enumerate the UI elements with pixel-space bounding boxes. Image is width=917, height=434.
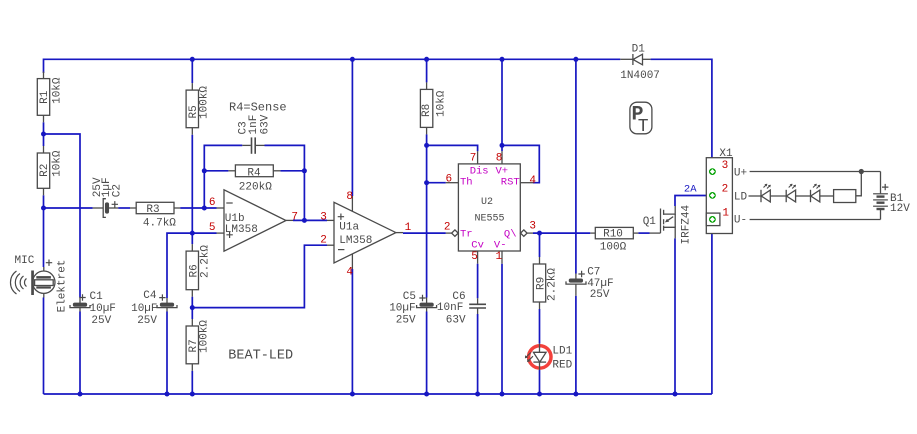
svg-text:1: 1 [405, 222, 412, 234]
junction top rail / U1a pin 8 [350, 57, 355, 62]
label C4 value [131, 290, 157, 327]
svg-text:LD1: LD1 [552, 345, 572, 357]
LED LD1 [525, 344, 546, 370]
wire C6 to ground [477, 314, 479, 394]
svg-text:RST: RST [501, 177, 520, 189]
wire R3 to U1b pin 6 [180, 207, 216, 209]
svg-text:63V: 63V [260, 114, 272, 134]
svg-text:U-: U- [734, 214, 747, 226]
resistor R4 [228, 165, 280, 177]
IC U2 NE555 box [446, 151, 533, 264]
svg-text:5: 5 [209, 222, 216, 234]
svg-text:25V: 25V [91, 315, 111, 327]
svg-text:25V: 25V [590, 289, 610, 301]
junction feedback right / R4 [302, 168, 307, 173]
wire R2 to MIC [43, 195, 45, 267]
label C2 value (rotated) [92, 177, 124, 197]
svg-text:NE555: NE555 [475, 213, 505, 224]
svg-text:R2: R2 [39, 164, 51, 177]
transistor Q1 IRFZ44 MOSFET [650, 206, 676, 238]
svg-text:R3: R3 [146, 204, 159, 216]
junction Dis node [424, 143, 429, 148]
junction top rail / R5 [190, 57, 195, 62]
label R5 value [188, 86, 211, 119]
external LED chain frame: U+ wire [750, 169, 881, 196]
junction ground/U1a pin4 [350, 392, 355, 397]
junction R2/MIC/C2 [41, 206, 46, 211]
label U1a [339, 222, 372, 247]
junction ground/NE555 V- [500, 392, 505, 397]
label R6 value [188, 245, 211, 278]
NE555 Tr pin 2 inverting bubble [452, 230, 459, 236]
wire left rail R1 to R2 [43, 122, 45, 146]
junction ground/R7 [190, 392, 195, 397]
svg-text:U+: U+ [734, 167, 747, 179]
resistor R1 [37, 72, 49, 123]
wire Q1 drain to X1 pin 2 [675, 196, 709, 207]
svg-text:2: 2 [444, 221, 451, 233]
LED LD1 red highlight ring [529, 346, 551, 368]
wire U1a pin 8 to top rail [351, 59, 353, 196]
svg-text:Tr: Tr [460, 228, 473, 240]
svg-text:C2: C2 [112, 184, 124, 197]
connector X1 pin 1 green pad [709, 216, 716, 223]
svg-text:T: T [638, 117, 649, 137]
resistor R3 [130, 202, 180, 213]
wire LED1-LED2 [770, 195, 786, 197]
label C1 value [90, 291, 116, 327]
svg-text:U1a: U1a [339, 222, 359, 234]
wire top rail right of D1 down to X1 pin 3 [651, 59, 712, 168]
label C3 value (rotated) [238, 114, 272, 134]
svg-text:V+: V+ [496, 165, 509, 177]
svg-text:1: 1 [722, 208, 729, 220]
wire C5 to ground [426, 312, 428, 395]
wire C7 to ground [575, 296, 577, 394]
junction ground/C1 [78, 392, 83, 397]
wire C4 to ground [166, 312, 168, 395]
connector X1 pin 2 green pad [709, 192, 716, 199]
svg-text:25V: 25V [137, 315, 157, 327]
svg-text:10kΩ: 10kΩ [436, 90, 448, 117]
wire R6 to R7 node [191, 297, 193, 308]
svg-text:D1: D1 [632, 44, 646, 56]
svg-text:7: 7 [470, 153, 477, 165]
wire LD1 to ground [539, 370, 541, 394]
svg-text:5: 5 [471, 251, 478, 263]
junction U1b out / feedback [302, 218, 307, 223]
wire top rail to C7 [575, 59, 577, 273]
junction pin5 node [190, 231, 195, 236]
svg-text:C5: C5 [403, 291, 416, 303]
svg-text:10nF: 10nF [437, 302, 463, 314]
wire C3 to feedback right vertical [265, 145, 305, 220]
svg-text:MIC: MIC [15, 255, 35, 267]
wire LED3 to external resistor [820, 195, 834, 197]
wire ground rail [44, 393, 712, 395]
label R10 value [600, 228, 627, 253]
svg-text:Q\: Q\ [504, 228, 517, 240]
svg-text:10µF: 10µF [90, 303, 116, 315]
wire C1 to ground [79, 312, 81, 395]
svg-text:4: 4 [346, 267, 353, 279]
svg-text:R4: R4 [247, 167, 261, 179]
svg-text:R10: R10 [603, 228, 623, 240]
wire C4 up and right to pin5 node [167, 233, 217, 298]
wire Th node to NE555 pin 6 [427, 182, 446, 184]
wire Dis node to NE555 pin 7 [427, 145, 478, 151]
resistor R2 [37, 146, 49, 195]
junction ground/LD1 [537, 392, 542, 397]
op-amp U1a [327, 196, 403, 269]
svg-text:4: 4 [529, 175, 536, 187]
PT logo [630, 102, 652, 134]
wire Q1 source to ground [674, 238, 676, 394]
wire NE555 Q out to R10 [533, 232, 590, 234]
wire NE555 V+ pin 8 to top rail [501, 59, 503, 151]
wire R8 to C5 through Dis/Th nodes [426, 134, 428, 297]
svg-text:6: 6 [209, 197, 216, 209]
label D1 value [620, 44, 660, 83]
wire V+ node to RST pin 4 [502, 145, 539, 182]
label R9 value [536, 268, 559, 301]
svg-text:1N4007: 1N4007 [620, 70, 660, 82]
svg-text:2A: 2A [684, 184, 697, 196]
junction Q/R9 node [537, 231, 542, 236]
external LED 3 [811, 184, 821, 203]
wire top V+ rail left of D1 [44, 59, 621, 73]
svg-text:C1: C1 [90, 291, 104, 303]
wire top rail to R8 [426, 59, 428, 82]
label B1 value [890, 193, 910, 215]
svg-text:2.2kΩ: 2.2kΩ [200, 245, 212, 278]
svg-text:R4=Sense: R4=Sense [229, 100, 287, 114]
junction V+/RST node [500, 143, 505, 148]
svg-text:C4: C4 [143, 290, 157, 302]
wire pin5 node down to R6 [191, 233, 193, 244]
svg-text:R6: R6 [188, 264, 200, 277]
junction ground/Q1 source [673, 392, 678, 397]
connector X1 pin 3 green pad [709, 168, 716, 175]
wire U1a out to NE555 Tr [403, 232, 446, 234]
wire R7 node to R7 [191, 308, 193, 319]
wire MIC to ground rail [43, 298, 45, 395]
svg-text:100kΩ: 100kΩ [199, 86, 211, 119]
wire C2 to R3 [118, 207, 130, 209]
battery B1 [873, 184, 888, 209]
capacitor C2 (electrolytic, horizontal) [93, 199, 119, 218]
svg-text:Q1: Q1 [643, 216, 657, 228]
svg-text:R8: R8 [421, 104, 433, 117]
wire top rail to R5 [191, 59, 193, 83]
label U1b [225, 213, 258, 236]
svg-text:R1: R1 [39, 90, 51, 104]
svg-text:10kΩ: 10kΩ [52, 150, 64, 177]
svg-text:8: 8 [496, 153, 503, 165]
resistor R5 [186, 83, 198, 135]
svg-text:10µF: 10µF [389, 302, 415, 314]
external LD wire [749, 195, 762, 197]
svg-text:12V: 12V [890, 203, 910, 215]
label R7 value [188, 320, 211, 353]
svg-text:C7: C7 [587, 267, 600, 279]
svg-text:RED: RED [552, 360, 572, 372]
capacitor C3 [242, 137, 264, 153]
svg-text:7: 7 [291, 212, 298, 224]
wire X1 pin 1 to ground rail [711, 226, 713, 394]
wire R4 left [204, 170, 228, 172]
external LED 2 [786, 184, 796, 203]
capacitor C7 (electrolytic) [566, 271, 586, 296]
label R1 value [39, 77, 64, 104]
wire LED2-LED3 [796, 195, 811, 197]
junction top rail / R8 [424, 57, 429, 62]
svg-text:X1: X1 [719, 148, 733, 160]
external U- wire [750, 210, 881, 220]
svg-text:4.7kΩ: 4.7kΩ [143, 217, 176, 229]
svg-text:LD: LD [734, 192, 748, 204]
svg-text:1nF: 1nF [248, 115, 260, 135]
svg-text:6: 6 [446, 174, 453, 186]
wire R10 to Q1 gate [638, 232, 649, 234]
svg-text:3: 3 [722, 160, 729, 172]
junction Th node [424, 180, 429, 185]
svg-text:IRFZ44: IRFZ44 [680, 204, 692, 244]
svg-text:3: 3 [320, 212, 327, 224]
wire feedback left vertical to C3 line [204, 145, 242, 208]
svg-text:100Ω: 100Ω [600, 241, 627, 253]
wire R9 to LD1 [539, 309, 541, 344]
microphone MIC Elektret [10, 260, 55, 298]
connector X1 [706, 158, 732, 234]
wire U1a pin 4 to ground [351, 269, 353, 394]
label U2 NE555 [475, 197, 505, 224]
junction R1/R2/C1 [41, 132, 46, 137]
junction pin6/feedback [202, 206, 207, 211]
op-amp U1b [217, 190, 294, 251]
junction ground/C5 [424, 392, 429, 397]
capacitor C4 (electrolytic) [157, 294, 177, 311]
svg-text:25V: 25V [92, 177, 104, 197]
junction ground/C4 [165, 392, 170, 397]
svg-text:3: 3 [529, 220, 536, 232]
svg-text:2: 2 [722, 184, 729, 196]
external series resistor [834, 190, 856, 203]
label LD1 value [552, 345, 572, 371]
svg-text:U2: U2 [481, 197, 493, 208]
label C7 value [587, 267, 613, 302]
label R3 value [143, 204, 176, 229]
junction ground/C6 [475, 392, 480, 397]
capacitor C5 (electrolytic) [417, 295, 437, 312]
svg-text:10kΩ: 10kΩ [52, 77, 64, 104]
capacitor C6 [469, 298, 486, 314]
NE555 Q pin 3 inverting bubble [521, 230, 528, 236]
svg-text:25V: 25V [396, 315, 416, 327]
wire R7 to ground [191, 371, 193, 394]
resistor R9 [533, 257, 545, 309]
wire R4 right [280, 170, 304, 172]
svg-text:100kΩ: 100kΩ [199, 320, 211, 353]
PT logo letters [632, 104, 649, 138]
junction top rail / NE555 V+ [500, 57, 505, 62]
junction feedback left / R4 [202, 168, 207, 173]
svg-text:10µF: 10µF [131, 303, 157, 315]
wire R2/MIC node to C2 [44, 207, 93, 209]
svg-text:Dis: Dis [470, 165, 489, 177]
svg-text:Th: Th [460, 177, 473, 189]
wire Q node down to R9 [539, 233, 541, 257]
wire U1a pin 2 to R6/R7 node [192, 245, 327, 307]
svg-text:220kΩ: 220kΩ [239, 181, 272, 193]
svg-text:LM358: LM358 [339, 235, 372, 247]
junction R6/R7/pin2 [190, 305, 195, 310]
label R8 value [421, 90, 448, 117]
wire U1b out to U1a pin 3 [293, 219, 327, 221]
junction top rail / C7 [573, 57, 578, 62]
resistor R8 [420, 82, 432, 134]
capacitor C1 (electrolytic) [70, 294, 90, 311]
wire R5 to pin5 node [191, 135, 193, 233]
svg-text:LM358: LM358 [225, 224, 258, 236]
svg-text:Elektret: Elektret [57, 260, 69, 313]
svg-text:Cv: Cv [471, 240, 484, 252]
resistor R6 [186, 244, 198, 297]
label C6 value [437, 291, 466, 327]
wire NE555 Cv pin 5 to C6 [477, 264, 479, 299]
wire NE555 V- pin 1 to ground [501, 264, 503, 394]
label R2 value [39, 150, 64, 177]
external LED 1 [761, 184, 771, 203]
svg-text:BEAT-LED: BEAT-LED [228, 349, 293, 364]
label C5 value [389, 291, 416, 327]
label R4 value [239, 167, 272, 193]
diode D1 1N4007 [620, 54, 650, 65]
svg-text:1: 1 [496, 251, 503, 263]
resistor R10 [590, 227, 638, 238]
svg-text:V-: V- [494, 240, 507, 252]
wire node R1/R2 to C1 [44, 134, 81, 298]
svg-text:8: 8 [346, 191, 353, 203]
junction ground/C7 [573, 392, 578, 397]
svg-text:2.2kΩ: 2.2kΩ [547, 268, 559, 301]
svg-text:63V: 63V [446, 315, 466, 327]
svg-text:2: 2 [320, 234, 327, 246]
resistor R7 [186, 319, 198, 371]
